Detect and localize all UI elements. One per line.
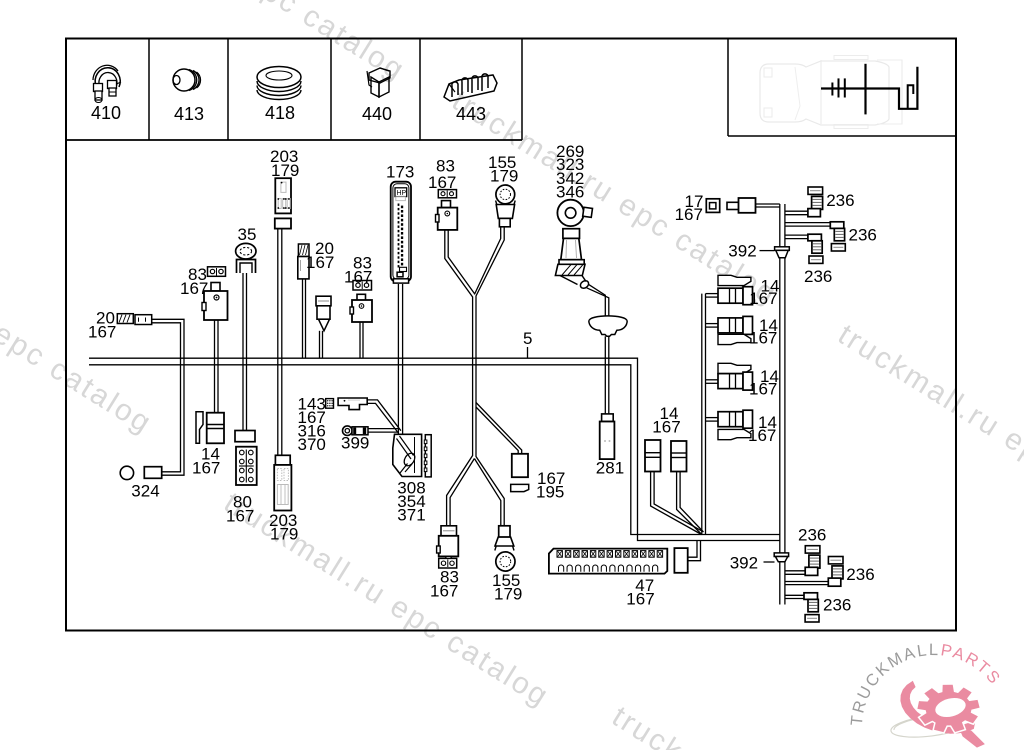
clamp icon 410 <box>95 68 120 87</box>
flat lug 14/167 row1 <box>718 275 751 285</box>
grommet icon 413 <box>173 69 195 91</box>
wire loop to 47 box <box>688 541 697 557</box>
svg-text:236: 236 <box>823 596 851 615</box>
connector 155/179 top <box>496 185 515 204</box>
V-connector 20/167 <box>316 296 331 306</box>
svg-text:167: 167 <box>88 323 116 342</box>
connector 173 <box>391 182 411 282</box>
main harness bus line 5 (inner) <box>89 365 780 535</box>
wire 173 to bracket 308 <box>397 284 399 434</box>
clip icon 440 <box>369 68 390 83</box>
svg-text:HP: HP <box>397 190 407 197</box>
svg-text:167: 167 <box>180 279 208 298</box>
cap 203/179 bottom <box>275 455 290 465</box>
svg-text:173: 173 <box>386 163 414 182</box>
ring 346 assembly <box>557 200 583 226</box>
junction 392 bottom <box>774 553 788 557</box>
svg-text:346: 346 <box>556 182 584 201</box>
funnel 346 assembly <box>560 276 586 285</box>
svg-text:167: 167 <box>749 329 777 348</box>
connector 14/167 row1 <box>718 288 743 303</box>
connector 14/167 left (body) <box>207 413 224 444</box>
svg-text:392: 392 <box>728 242 756 261</box>
elbow 236 b2 <box>828 557 843 564</box>
elbow 236 b1 <box>805 546 820 553</box>
fuse 83/167 #1 <box>208 267 226 277</box>
svg-text:179: 179 <box>494 585 522 604</box>
truck outline sketch <box>760 56 902 129</box>
cap 346 assembly <box>563 229 580 239</box>
svg-text:236: 236 <box>798 526 826 545</box>
wire left cylinder to loop <box>651 472 702 535</box>
svg-text:167: 167 <box>306 253 334 272</box>
plug 143/167 <box>338 398 367 410</box>
connector 80/167 <box>236 447 257 485</box>
logo arc text TRUCKMALLPARTS <box>862 655 1006 728</box>
stub to elbow 236 b1 <box>785 570 806 572</box>
svg-text:179: 179 <box>270 525 298 544</box>
right trunk wire <box>779 204 781 605</box>
elbow 236 e1 <box>808 187 823 194</box>
connector 35 <box>236 243 256 259</box>
svg-text:167: 167 <box>192 459 220 478</box>
wire Y branch 83/167 top <box>445 230 473 526</box>
svg-text:167: 167 <box>430 582 458 601</box>
callout tick for bus 5 <box>527 347 529 358</box>
svg-text:418: 418 <box>265 103 295 123</box>
connector 203/179 top <box>275 178 291 213</box>
parts table cell borders <box>66 139 522 141</box>
svg-text:440: 440 <box>362 104 392 124</box>
bold harness route in truck inset <box>821 67 917 109</box>
elbow 236 e3 <box>808 234 822 241</box>
connector 83/167 #1 <box>211 283 220 292</box>
connector 155/179 bottom <box>499 526 510 537</box>
callout dash 392 top <box>760 250 775 252</box>
svg-text:236: 236 <box>826 191 854 210</box>
elbow 236 e2 <box>830 222 844 229</box>
stub to 14/167 row4 <box>706 417 719 419</box>
stub to 14/167 row2 <box>706 323 719 325</box>
fuse 83/167 #2 <box>353 281 372 291</box>
wire 20/167 plug to bus <box>302 279 304 358</box>
svg-text:179: 179 <box>271 161 299 180</box>
plug 20/167 far left <box>117 314 133 324</box>
svg-text:167: 167 <box>428 173 456 192</box>
svg-text:195: 195 <box>536 483 564 502</box>
svg-text:167: 167 <box>226 507 254 526</box>
bracket 308/354/371 <box>393 434 422 476</box>
fuse 83/167 #3 <box>438 190 456 198</box>
wire grommet to 281 <box>604 336 606 414</box>
plug 167/195 <box>511 484 529 491</box>
flat lug 14/167 row2 <box>718 334 751 344</box>
connector 167/195 <box>512 454 528 477</box>
pin grid 143 <box>326 399 334 409</box>
connector 14/167 left (bent strip) <box>196 412 203 444</box>
flange 346 assembly <box>559 260 584 265</box>
wire ring terminal 399 <box>368 428 398 430</box>
truck inset box border <box>727 39 729 137</box>
svg-text:370: 370 <box>298 435 326 454</box>
wire 143/167 plug to bracket <box>367 400 401 431</box>
square connector 17/167 <box>706 199 719 213</box>
outer border frame <box>66 39 956 631</box>
stub to elbow 236 e2 <box>785 222 830 224</box>
connector 203/179 bottom <box>274 465 291 511</box>
svg-text:167: 167 <box>675 205 703 224</box>
connector 83/167 bottom <box>441 526 457 536</box>
connector 83/167 #3 <box>442 201 451 208</box>
svg-text:167: 167 <box>626 590 654 609</box>
svg-text:371: 371 <box>397 506 425 525</box>
cap 203/179 top <box>275 218 291 228</box>
svg-text:167: 167 <box>749 289 777 308</box>
svg-text:236: 236 <box>846 565 874 584</box>
logo pink swoosh <box>901 682 975 734</box>
logo gray swoosh <box>891 715 969 737</box>
wire 35 to 80/167 <box>242 273 244 431</box>
svg-text:167: 167 <box>344 268 372 287</box>
svg-text:236: 236 <box>849 226 877 245</box>
connector 14/167 row2 <box>718 318 743 333</box>
wire 20/167 to 324 <box>152 319 184 475</box>
connector 14/167 row3 <box>718 374 743 389</box>
fuse 83/167 bottom <box>439 558 457 568</box>
svg-text:392: 392 <box>730 554 758 573</box>
svg-text:179: 179 <box>490 167 518 186</box>
wire lower Y inner <box>450 459 474 527</box>
svg-text:324: 324 <box>131 482 159 501</box>
wire 203/179 top to 203/179 bottom <box>277 229 279 456</box>
connector 324 <box>120 466 133 479</box>
svg-text:443: 443 <box>456 104 486 124</box>
connector 14/167 row4 <box>718 412 743 427</box>
wire 346 assembly to grommet <box>589 285 606 317</box>
stub to elbow 236 b3 <box>785 594 804 596</box>
stub to elbow 236 e1 <box>785 210 808 212</box>
wire spur to 167/195 <box>476 403 522 454</box>
callout dash 392 bottom <box>764 561 775 563</box>
elbow 236 b3 <box>804 593 818 600</box>
svg-text:410: 410 <box>91 103 121 123</box>
wire column for 14/167 connectors <box>701 294 703 535</box>
svg-text:236: 236 <box>804 267 832 286</box>
plug 20/167 middle <box>298 244 309 257</box>
cylinder 14/167 right <box>671 441 687 472</box>
box next to 47 <box>674 548 687 573</box>
connector 281 <box>602 414 614 422</box>
svg-text:413: 413 <box>174 104 204 124</box>
svg-text:281: 281 <box>596 459 624 478</box>
terminal strip 47/167 <box>549 549 667 574</box>
grommet oval 281 wire <box>589 316 626 325</box>
stub to elbow 236 e3 <box>785 234 808 236</box>
main harness bus line 5 (outer) <box>89 358 780 540</box>
comb strip 308 <box>425 435 431 477</box>
cap 80/167 <box>235 431 255 442</box>
connector 83/167 #2 <box>357 294 366 301</box>
svg-text:399: 399 <box>341 434 369 453</box>
svg-text:35: 35 <box>238 225 257 244</box>
cylinder 14/167 left <box>645 440 661 472</box>
plug 17/167 <box>727 202 739 209</box>
wire right cylinder to loop <box>677 472 702 535</box>
flat lug 14/167 row4 <box>718 429 751 439</box>
svg-text:167: 167 <box>749 380 777 399</box>
wire 83/167 to bus <box>359 322 361 358</box>
wire V-connector to bus <box>319 331 321 358</box>
logo swoosh tail <box>960 729 984 747</box>
cable comb icon 443 <box>444 75 497 101</box>
flat lug 14/167 row3 <box>718 363 751 373</box>
logo gear <box>918 685 979 731</box>
wire Y branch 155/179 top <box>476 227 504 526</box>
stub to elbow 236 b2 <box>785 581 828 583</box>
wire 83/167 to 14/167 <box>214 320 216 413</box>
ring terminal 399 <box>343 426 353 436</box>
hatched box 346 assembly <box>555 264 585 275</box>
stub to 14/167 row3 <box>706 379 719 381</box>
junction 392 top <box>775 247 790 251</box>
body 346 assembly <box>561 238 582 259</box>
svg-text:167: 167 <box>652 417 680 436</box>
svg-text:167: 167 <box>748 426 776 445</box>
grommet icon 418 <box>257 67 301 88</box>
svg-text:5: 5 <box>523 329 532 348</box>
stub to 14/167 row1 <box>706 293 719 295</box>
wire 17/167 plug to trunk <box>756 203 780 205</box>
